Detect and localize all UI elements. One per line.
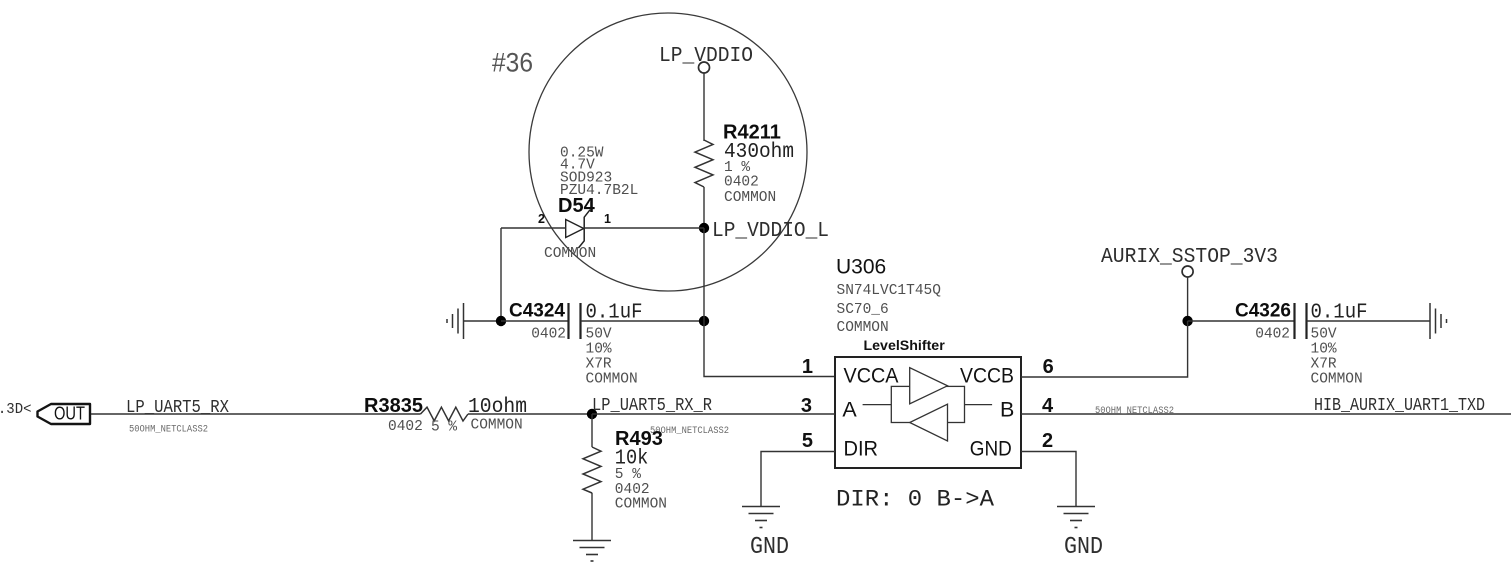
svg-text:VCCB: VCCB xyxy=(960,364,1014,388)
svg-text:SN74LVC1T45Q: SN74LVC1T45Q xyxy=(837,283,942,299)
svg-text:COMMON: COMMON xyxy=(544,246,596,262)
svg-text:2: 2 xyxy=(538,212,545,226)
wire R3835 to junction LP_UART5_RX_R xyxy=(468,413,592,415)
wire junction down and left to U306 pin 6 xyxy=(1021,321,1188,377)
wire junction up from C4324 node to LP_VDDIO_L node xyxy=(703,228,705,321)
svg-text:X7R: X7R xyxy=(586,357,612,373)
svg-text:D54: D54 xyxy=(558,195,596,217)
annotation circle #36 xyxy=(492,13,807,291)
svg-text:GND: GND xyxy=(750,534,789,561)
svg-text:50OHM_NETCLASS2: 50OHM_NETCLASS2 xyxy=(129,425,208,436)
buffer loop inside U306 xyxy=(863,404,892,406)
ground (left, sideways) xyxy=(447,303,464,339)
ground (right, sideways mirrored) xyxy=(1430,303,1447,339)
svg-text:10%: 10% xyxy=(586,342,612,358)
ground (below pin 5) xyxy=(742,507,789,562)
svg-text:0402: 0402 xyxy=(531,327,566,343)
svg-text:0402: 0402 xyxy=(388,419,423,435)
wire OUT flag to R3835 (net LP_UART5_RX) xyxy=(91,413,421,415)
resistor R3835 xyxy=(364,395,527,436)
resistor R493 xyxy=(583,428,667,513)
wire C4324 right plate to junction xyxy=(581,320,705,322)
wire U306 pin 5 to ground xyxy=(761,452,835,507)
svg-text:OUT: OUT xyxy=(54,404,85,424)
node LP_VDDIO (power terminal) xyxy=(659,44,753,73)
svg-text:U306: U306 xyxy=(836,256,886,279)
svg-text:GND: GND xyxy=(1064,534,1103,561)
svg-text:VCCA: VCCA xyxy=(844,364,900,388)
net label 50OHM_NETCLASS2 (right) xyxy=(1095,406,1174,417)
svg-text:0402: 0402 xyxy=(1255,327,1290,343)
svg-text:R3835: R3835 xyxy=(364,395,423,417)
off-page reference .3D< xyxy=(0,401,32,418)
svg-text:SC70_6: SC70_6 xyxy=(837,302,889,318)
node junction AURIX / C4326 / pin6 xyxy=(1182,316,1192,326)
svg-text:COMMON: COMMON xyxy=(724,190,776,206)
node AURIX_SSTOP_3V3 (power terminal) xyxy=(1101,245,1278,277)
wire D54 anode lead (left) xyxy=(501,227,566,229)
svg-text:COMMON: COMMON xyxy=(471,418,523,434)
svg-text:5 %: 5 % xyxy=(615,467,641,483)
wire R4211 to node LP_VDDIO_L xyxy=(703,187,705,228)
wire junction to U306 pin 3 xyxy=(592,413,835,415)
svg-text:AURIX_SSTOP_3V3: AURIX_SSTOP_3V3 xyxy=(1101,245,1278,269)
svg-text:DIR: DIR xyxy=(844,437,879,461)
svg-text:LP_UART5_RX_R: LP_UART5_RX_R xyxy=(592,396,712,416)
svg-text:50V: 50V xyxy=(586,327,612,343)
svg-text:0402: 0402 xyxy=(724,175,759,191)
svg-text:COMMON: COMMON xyxy=(1311,372,1363,388)
resistor R4211 xyxy=(695,122,794,207)
svg-text:COMMON: COMMON xyxy=(837,320,889,336)
svg-text:50OHM_NETCLASS2: 50OHM_NETCLASS2 xyxy=(1095,406,1174,417)
ground (below pin 2) xyxy=(1057,507,1103,562)
wire D54 cathode lead to LP_VDDIO_L xyxy=(584,227,704,229)
wire R493 to ground xyxy=(591,493,593,540)
wire LP_VDDIO terminal to R4211 xyxy=(703,73,705,141)
svg-text:DIR: 0 B->A: DIR: 0 B->A xyxy=(836,487,995,514)
wire junction to C4324 left plate xyxy=(501,320,569,322)
capacitor C4326 xyxy=(1235,301,1368,388)
svg-text:5: 5 xyxy=(802,430,813,452)
svg-text:1.3D<: 1.3D< xyxy=(0,401,32,418)
port OUT flag xyxy=(38,404,91,425)
svg-text:#36: #36 xyxy=(492,48,533,78)
svg-text:2: 2 xyxy=(1042,430,1053,452)
wire junction down and right to U306 pin 1 xyxy=(704,321,835,377)
node junction VDDIO_L / C4324 xyxy=(699,316,709,326)
node LP_VDDIO_L (junction) xyxy=(699,219,829,243)
svg-text:50V: 50V xyxy=(1311,327,1337,343)
svg-text:GND: GND xyxy=(970,437,1012,461)
svg-text:COMMON: COMMON xyxy=(586,372,638,388)
op-amp U306 (level shifter SN74LVC1T45Q) xyxy=(801,256,1054,514)
ground (below R493) xyxy=(573,541,611,562)
svg-text:LevelShifter: LevelShifter xyxy=(864,338,946,354)
svg-text:LP_VDDIO_L: LP_VDDIO_L xyxy=(712,219,829,243)
svg-text:10ohm: 10ohm xyxy=(468,396,527,419)
svg-text:1: 1 xyxy=(802,356,813,378)
svg-text:10%: 10% xyxy=(1311,342,1337,358)
node LP_UART5_RX_R (junction) xyxy=(587,396,729,437)
svg-text:A: A xyxy=(842,398,857,422)
node junction at C4324 left xyxy=(496,316,506,326)
svg-text:5 %: 5 % xyxy=(431,420,457,436)
svg-text:LP_UART5_RX: LP_UART5_RX xyxy=(126,398,229,418)
net label LP_UART5_RX xyxy=(126,398,229,436)
svg-text:X7R: X7R xyxy=(1311,357,1337,373)
wire junction down to R493 xyxy=(591,414,593,447)
svg-text:HIB_AURIX_UART1_TXD: HIB_AURIX_UART1_TXD xyxy=(1314,396,1485,416)
diode D54 (zener PZU4.7B2L) xyxy=(538,146,638,263)
wire junction to C4326 left plate xyxy=(1188,320,1295,322)
svg-text:C4324: C4324 xyxy=(509,301,565,322)
wire D54 left down to C4324 junction xyxy=(500,228,502,321)
wire U306 pin 4 to right edge (net HIB_AURIX_UART1_TXD) xyxy=(1021,413,1511,415)
svg-text:B: B xyxy=(1000,398,1014,422)
wire ground to C4324 junction xyxy=(464,320,502,322)
wire AURIX terminal down to junction xyxy=(1187,277,1189,322)
svg-text:1: 1 xyxy=(604,212,611,226)
wire C4326 right plate to ground xyxy=(1307,320,1431,322)
wire U306 pin 2 to ground xyxy=(1021,452,1076,507)
capacitor C4324 xyxy=(509,301,643,388)
svg-text:COMMON: COMMON xyxy=(615,497,667,513)
net label HIB_AURIX_UART1_TXD xyxy=(1314,396,1485,416)
svg-text:C4326: C4326 xyxy=(1235,301,1291,322)
svg-text:6: 6 xyxy=(1043,356,1054,378)
